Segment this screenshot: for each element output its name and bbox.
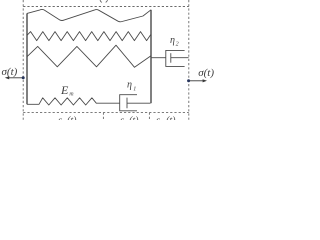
- svg-text:(t): (t): [166, 116, 176, 121]
- right stress arrow: [189, 80, 204, 82]
- dashpot eta2 left rod: [152, 57, 166, 59]
- dashed box left edge: [22, 0, 24, 120]
- left node dot: [22, 76, 25, 79]
- svg-text:ε: ε: [58, 116, 62, 121]
- svg-text:(t): (t): [129, 116, 139, 121]
- left rigid bar: [26, 13, 28, 104]
- dashed box right edge: [188, 0, 190, 120]
- dashpot eta2 piston plate: [170, 53, 172, 63]
- svg-text:ε: ε: [120, 116, 124, 121]
- dashpot eta2 piston rod: [171, 57, 189, 59]
- svg-text:1: 1: [133, 86, 136, 92]
- left stress arrow: [8, 77, 23, 79]
- svg-text:2: 2: [176, 41, 179, 47]
- central rigid bar: [150, 10, 152, 103]
- svg-text:σ(t): σ(t): [2, 66, 18, 78]
- dashpot eta1 cylinder: [120, 95, 137, 111]
- dashed box top edge: [23, 6, 189, 8]
- dashpot eta1 piston rod: [127, 102, 151, 104]
- svg-text:η: η: [170, 35, 175, 46]
- right node dot: [187, 79, 190, 82]
- spring Em (bottom): [27, 98, 120, 105]
- spring 3 (large zigzag): [27, 45, 151, 67]
- svg-text:m: m: [69, 91, 73, 97]
- svg-text:E: E: [60, 83, 69, 97]
- spring 1 (top): [27, 9, 151, 21]
- svg-text:σ(t): σ(t): [198, 67, 214, 79]
- svg-text:(t): (t): [67, 116, 77, 121]
- svg-text:η: η: [127, 79, 132, 90]
- dashed divider tick 1 below box: [102, 113, 104, 120]
- dashpot eta1 piston plate: [126, 98, 128, 109]
- dashpot eta2 cylinder: [166, 50, 185, 66]
- spring 2 (fine): [27, 32, 151, 41]
- dashed divider tick 2 below box: [148, 113, 150, 120]
- cropped label marks top: [100, 0, 107, 2]
- svg-text:ε: ε: [156, 116, 160, 121]
- dashed box bottom edge: [23, 112, 189, 114]
